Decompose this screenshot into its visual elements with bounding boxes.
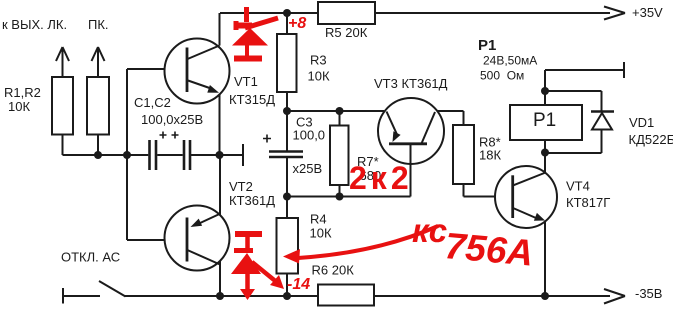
wire: P1 top node with terminal	[545, 62, 624, 105]
resistor R2	[87, 47, 109, 155]
resistor R6	[318, 285, 374, 306]
wire: input node horizontal y=155 with end terminal	[63, 144, 244, 166]
svg-text:VT1: VT1	[234, 74, 258, 89]
label VT2 KT361D	[229, 179, 275, 208]
svg-text:100,0: 100,0	[293, 128, 326, 143]
svg-text:КТ817Г: КТ817Г	[566, 195, 610, 210]
capacitor C3	[263, 111, 303, 197]
wire: -35V bottom rail	[125, 289, 626, 304]
wire: VT1 collector to top rail	[219, 13, 221, 46]
wire: base bus VT1/VT2	[127, 69, 187, 240]
label R7* 680	[357, 154, 381, 183]
label R8* 18K	[479, 135, 501, 163]
label R4 10K	[310, 212, 332, 241]
label VT4 KT817G	[566, 179, 610, 211]
svg-text:C1,C2: C1,C2	[134, 95, 171, 110]
red annotation: hand-drawn zener diode at VT2 collector (-14)	[231, 234, 284, 300]
svg-text:R4: R4	[310, 212, 327, 227]
transistor VT4 (KT817G, NPN)	[495, 166, 557, 228]
svg-text:R3: R3	[310, 53, 327, 68]
svg-text:КТ315Д: КТ315Д	[229, 92, 275, 107]
svg-text:КД522Б: КД522Б	[629, 132, 673, 147]
resistor R1	[52, 47, 73, 155]
svg-text:х25В: х25В	[293, 161, 323, 176]
svg-text:ПК.: ПК.	[88, 17, 109, 32]
svg-text:10К: 10К	[8, 99, 30, 114]
wire: base node y=196.5 (C3 bottom, R7 bottom, VT3 base, R4 top)	[287, 196, 411, 198]
resistor R5	[318, 2, 375, 24]
svg-text:+8: +8	[288, 15, 306, 32]
svg-text:756А: 756А	[443, 225, 535, 274]
resistor R4	[277, 197, 299, 297]
label VT1 KT315D	[229, 74, 275, 107]
label P1 24V,50mA 500 Om	[478, 37, 537, 83]
red annotation: hand-drawn zener diode at VT1 collector (+8)	[232, 7, 278, 59]
wire: VT4 collector / P1 bottom node	[545, 140, 602, 173]
svg-text:100,0х25В: 100,0х25В	[141, 112, 203, 127]
capacitor C1,C2 (two series electrolytics)	[150, 132, 191, 171]
svg-text:VT4: VT4	[566, 179, 590, 194]
svg-text:VT3 КТ361Д: VT3 КТ361Д	[374, 76, 448, 91]
svg-text:Р1: Р1	[478, 37, 496, 54]
red annotation: text ks 756A	[412, 212, 535, 274]
svg-text:VT2: VT2	[229, 179, 253, 194]
svg-text:24В,50мА: 24В,50мА	[483, 54, 537, 68]
svg-text:18К: 18К	[479, 148, 501, 163]
svg-text:500 Ом: 500 Ом	[480, 69, 524, 83]
transistor VT1 (KT315D, NPN)	[165, 39, 230, 104]
label R3 10K	[308, 53, 330, 84]
svg-text:R5 20К: R5 20К	[325, 25, 368, 40]
svg-text:+35V: +35V	[632, 5, 663, 20]
transistor VT2 (KT361D, PNP)	[165, 206, 230, 271]
svg-text:-35В: -35В	[635, 286, 662, 301]
svg-text:2к2: 2к2	[349, 160, 413, 196]
diode VD1	[591, 91, 614, 153]
label R1,R2 10K	[4, 85, 41, 114]
wire: +35V top rail	[220, 7, 625, 20]
svg-text:-14: -14	[287, 276, 310, 293]
label C1,C2 100,0x25V	[134, 95, 203, 127]
label VD1 KD522B	[629, 115, 673, 147]
wire: R8 bottom to VT4 base	[464, 196, 513, 198]
label C3 100,0 x25V	[293, 115, 326, 177]
switch OTKL. AC	[63, 281, 126, 304]
wire: VT2 emitter up to input node	[219, 155, 221, 216]
svg-text:VD1: VD1	[629, 115, 654, 130]
wire: VT2 collector down to -35V rail	[219, 261, 221, 296]
red annotation: long arrow from 756A to R4	[283, 226, 438, 264]
wire: VT1 emitter down to input node	[219, 93, 221, 155]
resistor R8	[453, 111, 474, 197]
svg-text:R1,R2: R1,R2	[4, 85, 41, 100]
svg-text:Р1: Р1	[533, 110, 556, 131]
svg-text:10К: 10К	[310, 226, 332, 241]
wire: VT4 emitter down to -35V rail	[544, 221, 546, 296]
svg-text:ОТКЛ. АС: ОТКЛ. АС	[61, 250, 120, 265]
wire: emitter node y=111 (R3 bottom to VT3 emitter, R7 top)	[287, 92, 464, 111]
resistor R7	[330, 111, 349, 197]
svg-text:КТ361Д: КТ361Д	[229, 193, 275, 208]
relay P1 coil	[510, 105, 582, 140]
svg-text:R6 20К: R6 20К	[312, 263, 355, 278]
resistor R3	[277, 13, 297, 92]
svg-text:10К: 10К	[308, 69, 330, 84]
transistor VT3 (KT361D, PNP)	[378, 98, 444, 197]
svg-text:к ВЫХ. ЛК.: к ВЫХ. ЛК.	[2, 17, 67, 32]
